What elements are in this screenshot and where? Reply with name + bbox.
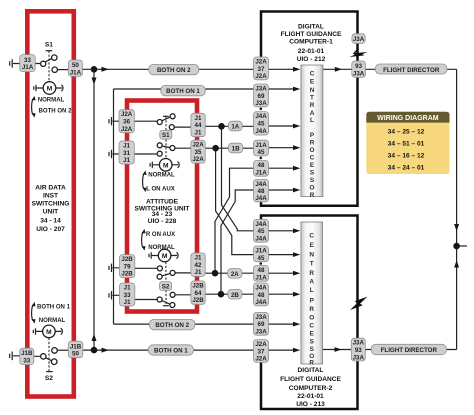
svg-text:35: 35 [195, 149, 202, 156]
connector J2B 64 J2B [191, 281, 205, 304]
node bubble 2A [228, 269, 242, 279]
svg-text:O: O [309, 315, 314, 322]
svg-text:FLIGHT DIRECTOR: FLIGHT DIRECTOR [381, 347, 438, 354]
svg-text:J2A: J2A [255, 356, 267, 363]
connector J3A dfgc1 output top [352, 34, 365, 44]
connector J3A 93 J3A dfgc2 [351, 338, 365, 361]
svg-text:UNIT: UNIT [43, 208, 58, 215]
svg-text:R: R [309, 306, 314, 313]
svg-text:J4A: J4A [255, 128, 267, 135]
switch row 1A attitude: T-bar anchor [163, 115, 169, 117]
svg-text:34 – 16 – 12: 34 – 16 – 12 [388, 152, 425, 159]
svg-text:J3A: J3A [255, 86, 267, 93]
motor M2 air data right mark [55, 328, 62, 334]
svg-text:31: 31 [123, 150, 130, 157]
svg-text:DIGITAL: DIGITAL [298, 367, 324, 374]
motor M2 attitude left mark [149, 252, 158, 258]
wire BOTH ON 1 top row to DFGC-1 J3A [114, 88, 254, 90]
switch row 2B attitude: T-bar anchor [163, 305, 169, 307]
wire right rail flight director [456, 69, 458, 349]
svg-text:NORMAL: NORMAL [38, 98, 65, 104]
svg-text:BOTH ON 1: BOTH ON 1 [166, 88, 200, 95]
svg-text:UIO - 213: UIO - 213 [296, 401, 325, 408]
switch S1 air data: output stub to 50 J1A [58, 69, 69, 71]
switch row 1A attitude: mech dashed [165, 116, 167, 130]
node bubble BOTH ON 2 bottom [149, 319, 195, 329]
svg-text:E: E [310, 79, 315, 86]
switch S2 air data: plug ticks [10, 352, 13, 361]
switch row 1A attitude: output contact [169, 125, 174, 130]
svg-text:FLIGHT GUIDANCE: FLIGHT GUIDANCE [280, 376, 341, 383]
svg-text:J2B: J2B [192, 297, 204, 304]
switch S2 air data: output stub to J1B 50 [58, 349, 69, 351]
junction dot 1B [212, 145, 219, 152]
switch S1 air data: input stub [13, 63, 41, 65]
motor M1 air data right mark [56, 85, 63, 91]
svg-text:J3A: J3A [353, 36, 365, 43]
switch row 2B attitude: mech dashed [165, 290, 167, 306]
switch S2 air data: lower contact [51, 359, 57, 365]
svg-text:P: P [310, 297, 315, 304]
svg-text:33: 33 [24, 57, 31, 64]
switch row 1A attitude: plug and stubs [112, 121, 191, 127]
svg-text:J3A: J3A [255, 329, 267, 336]
motor M2 attitude right mark [171, 252, 178, 258]
svg-text:J2A: J2A [121, 126, 133, 133]
air data switching unit red box [27, 11, 74, 396]
svg-text:S1: S1 [162, 132, 170, 139]
wire top row from S1 output to DFGC-1 J2A (BOTH ON 2 net) [82, 68, 254, 70]
switch row 1B attitude: arm [162, 146, 170, 148]
connector J1A 45 dfgc2 [254, 246, 269, 262]
connector J4A 48 J4A dfgc1 [254, 179, 269, 202]
node bubble BOTH ON 1 bottom [148, 345, 193, 355]
switch S1 air data: upper contact [52, 55, 57, 60]
svg-text:50: 50 [72, 62, 79, 69]
svg-text:1A: 1A [231, 124, 239, 131]
wire vertical bus left (S1/S2 crossfeed) [93, 69, 95, 350]
switch S1 air data: arm [45, 58, 52, 62]
switch row 1A attitude: plug ticks [109, 117, 112, 125]
switch row 2B attitude: output contact [170, 292, 175, 297]
svg-text:SWITCHING: SWITCHING [32, 200, 70, 207]
svg-text:R: R [310, 140, 315, 147]
curved arrow R ON AUX/NORMAL [142, 232, 143, 248]
svg-text:N: N [309, 251, 314, 258]
svg-text:42: 42 [195, 262, 202, 269]
arrow up on right rail [454, 260, 459, 267]
switch row 1A attitude: wiper contact [157, 120, 162, 125]
DFGC-2 box outline [261, 216, 358, 410]
svg-text:UIO - 228: UIO - 228 [148, 218, 177, 225]
wire 2B riser from DFGC-1 J4A 48 [221, 190, 254, 294]
svg-text:J3A: J3A [255, 100, 267, 107]
svg-text:T: T [310, 95, 314, 102]
svg-text:P: P [310, 132, 315, 139]
svg-text:M: M [162, 253, 168, 260]
svg-text:M: M [47, 86, 53, 93]
svg-text:A: A [309, 279, 314, 286]
connector J1 42 J1 [191, 253, 205, 276]
svg-text:33: 33 [23, 358, 30, 365]
switch S1 air data: T-bar anchor [46, 50, 53, 52]
wire CP2 feeders [269, 231, 297, 350]
arrow up on left bus [92, 334, 97, 341]
DFGC-1 box outline [261, 12, 358, 206]
wire 2A row [205, 272, 254, 274]
connector J4A 45 J4A dfgc2 [254, 219, 269, 242]
motor M1 air data left mark [34, 85, 43, 92]
motor M1 attitude right mark [172, 162, 179, 168]
svg-text:WIRING DIAGRAM: WIRING DIAGRAM [377, 115, 439, 122]
wire 1B riser to DFGC-2 J1A 45 [216, 148, 254, 254]
svg-text:J4A: J4A [255, 299, 267, 306]
switch row 2A attitude: output contact [170, 270, 175, 275]
switch S2 air data: T-bar anchor [46, 371, 53, 373]
svg-text:45: 45 [258, 121, 265, 128]
svg-text:L: L [310, 287, 314, 294]
svg-text:COMPUTER-1: COMPUTER-1 [289, 38, 333, 45]
svg-text:J2A: J2A [192, 156, 204, 163]
motor M1 air data [43, 82, 56, 95]
switch row 1B attitude: plug ticks [109, 150, 112, 158]
junction dot 2B [218, 291, 225, 298]
switch position label S1 bubble [160, 130, 172, 139]
svg-text:J2B: J2B [121, 256, 133, 263]
connector J1 33 J1 [120, 283, 135, 306]
switch row 2A attitude: plug ticks [109, 264, 112, 272]
svg-text:R: R [309, 360, 314, 367]
svg-text:64: 64 [195, 290, 202, 297]
connector J3A 69 J3A dfgc1 [254, 84, 269, 107]
switch row 2B attitude: plug and stubs [112, 295, 191, 300]
svg-text:48: 48 [258, 162, 265, 169]
switch row 1B attitude: output contact [170, 146, 175, 151]
svg-text:J1: J1 [195, 130, 202, 137]
svg-text:37: 37 [258, 66, 265, 73]
svg-text:BOTH ON 2: BOTH ON 2 [155, 322, 189, 329]
connector J2A 36 J2A [119, 110, 134, 133]
node dot dfgc2 a [260, 262, 263, 265]
svg-text:48: 48 [258, 292, 265, 299]
svg-text:45: 45 [258, 149, 265, 156]
svg-text:J3A: J3A [353, 354, 365, 361]
svg-text:37: 37 [258, 348, 265, 355]
wire 2A riser from DFGC-1 48 J1A [215, 168, 254, 273]
motor M2 air data [43, 325, 56, 338]
svg-text:O: O [310, 185, 315, 192]
motor M2 air data left mark [33, 328, 42, 335]
arrow CP1 to flight director [335, 67, 342, 72]
connector 33 J1A [20, 55, 35, 72]
motor M2 attitude [158, 249, 171, 262]
switch S1 air data: plug ticks [10, 59, 13, 68]
node bubble FLIGHT DIRECTOR top [375, 64, 447, 74]
svg-text:R: R [310, 192, 315, 199]
legend wiring diagram box [366, 112, 449, 174]
motor M1 attitude [159, 159, 172, 172]
svg-text:S2: S2 [162, 283, 170, 290]
svg-text:69: 69 [258, 321, 265, 328]
switch row 2B attitude: wiper contact [157, 297, 162, 302]
junction dot S1 output [91, 66, 98, 73]
svg-text:NORMAL: NORMAL [39, 318, 66, 324]
svg-text:J3A: J3A [353, 70, 365, 77]
switch row 1B attitude: open contact [157, 143, 162, 148]
svg-text:J1: J1 [195, 115, 202, 122]
connector J1A 45 dfgc1 [254, 140, 269, 156]
wire 1A riser to DFGC-2 J4A 45 [222, 126, 254, 231]
svg-text:S: S [310, 338, 315, 345]
svg-text:22-01-01: 22-01-01 [298, 48, 325, 55]
svg-text:J2A: J2A [192, 142, 204, 149]
svg-text:FLIGHT GUIDANCE: FLIGHT GUIDANCE [281, 31, 342, 38]
lightning break symbol dfgc1 [353, 52, 368, 56]
svg-text:22-01-01: 22-01-01 [297, 393, 324, 400]
svg-text:J4A: J4A [255, 181, 267, 188]
svg-text:S: S [310, 170, 315, 177]
svg-text:N: N [310, 87, 315, 94]
arrows into CP2 [293, 228, 300, 233]
switch row 2A attitude: plug and stubs [112, 268, 191, 273]
svg-text:J1B: J1B [70, 343, 82, 350]
svg-text:J1A: J1A [255, 275, 267, 282]
svg-text:T: T [310, 261, 314, 268]
svg-text:AIR DATA: AIR DATA [35, 184, 66, 191]
junction dot 1A [218, 123, 225, 130]
switch row 1B attitude: mech dashed [165, 139, 167, 158]
svg-text:2A: 2A [231, 271, 239, 278]
svg-text:45: 45 [258, 255, 265, 262]
node bubble BOTH ON 2 top [149, 64, 199, 74]
svg-text:50: 50 [72, 351, 79, 358]
svg-text:UIO - 207: UIO - 207 [36, 226, 65, 233]
svg-text:NORMAL: NORMAL [148, 245, 175, 251]
svg-text:34 – 25 – 12: 34 – 25 – 12 [388, 129, 425, 136]
attitude switching unit red box [127, 101, 197, 312]
svg-text:J4A: J4A [255, 113, 267, 120]
svg-text:NORMAL: NORMAL [148, 172, 175, 178]
svg-text:J1B: J1B [21, 350, 33, 357]
node bubble FLIGHT DIRECTOR bottom [371, 344, 446, 354]
curved arrow NORMAL/BOTH ON 2 [32, 99, 33, 115]
svg-text:44: 44 [195, 122, 202, 129]
svg-text:S: S [310, 177, 315, 184]
switch row 2A attitude: mech dashed [165, 262, 167, 282]
arrow down on left bus [92, 78, 97, 85]
wire BOTH ON 2 bottom row to DFGC-2 J3A [114, 323, 254, 325]
svg-text:79: 79 [124, 263, 131, 270]
svg-text:34 – 51 – 01: 34 – 51 – 01 [388, 141, 425, 148]
svg-text:34 – 24 – 01: 34 – 24 – 01 [388, 164, 425, 171]
svg-text:48: 48 [258, 188, 265, 195]
wire 2B row [204, 293, 254, 295]
svg-text:1B: 1B [232, 146, 240, 153]
switch row 2B attitude: arm [162, 301, 170, 305]
connector J4A 45 J4A dfgc1 [254, 112, 269, 135]
svg-text:93: 93 [355, 347, 362, 354]
svg-text:93: 93 [355, 63, 362, 70]
wire 1A row [204, 125, 254, 127]
svg-text:J1A: J1A [255, 170, 267, 177]
svg-text:UIO - 212: UIO - 212 [297, 56, 326, 63]
svg-text:DIGITAL: DIGITAL [298, 23, 324, 30]
svg-text:69: 69 [258, 93, 265, 100]
svg-text:J4A: J4A [255, 195, 267, 202]
connector J3A 69 J3A dfgc2 [254, 312, 269, 335]
switch S1 air data: wiper contact [41, 61, 46, 66]
connector 50 J1A [68, 60, 82, 76]
svg-text:E: E [310, 331, 315, 338]
svg-text:R: R [310, 102, 315, 109]
switch S1 air data: lower contact to output [52, 67, 57, 72]
CP1 vertical letters [310, 71, 315, 200]
switch row 1B attitude: plug and stubs [112, 148, 191, 154]
connector J1B 50 [68, 341, 83, 357]
svg-text:J1: J1 [124, 299, 131, 306]
svg-text:M: M [163, 162, 169, 169]
curved arrow NORMAL/L ON AUX [143, 174, 144, 190]
junction dot 2A [212, 270, 219, 277]
svg-text:J1: J1 [123, 143, 130, 150]
wire CP1 to flight director output [323, 68, 457, 70]
svg-text:R: R [309, 270, 314, 277]
arrow CP2 to flight director [335, 347, 342, 352]
svg-text:L ON AUX: L ON AUX [146, 186, 175, 192]
svg-text:J1A: J1A [255, 248, 267, 255]
svg-text:S1: S1 [45, 41, 53, 48]
svg-text:34 - 14: 34 - 14 [40, 217, 61, 224]
CP1 central processor box U1 [301, 65, 323, 197]
switch row 1A attitude: arm [162, 117, 171, 121]
svg-text:J1: J1 [195, 255, 202, 262]
svg-text:C: C [310, 71, 315, 78]
connector J2A 35 J2A [191, 140, 205, 163]
svg-text:S: S [310, 346, 315, 353]
switch row 2A attitude: open contact [157, 274, 162, 279]
svg-text:J2A: J2A [255, 59, 267, 66]
switch S2 air data: wiper contact [41, 354, 46, 359]
switch S2 air data: upper contact to output [52, 348, 58, 354]
svg-text:J3A: J3A [353, 340, 365, 347]
lightning break symbol dfgc2 [355, 297, 368, 305]
svg-text:BOTH ON 2: BOTH ON 2 [39, 109, 73, 115]
connector J2B 79 J2B [120, 255, 135, 278]
connector J4A 48 J4A dfgc2 [254, 283, 269, 306]
svg-text:S2: S2 [45, 375, 53, 382]
svg-text:J2A: J2A [255, 73, 267, 80]
motor M1 attitude left mark [150, 162, 159, 169]
arrow down on right rail [454, 224, 459, 231]
svg-text:J4A: J4A [255, 285, 267, 292]
switch row 2A attitude: wiper contact [157, 266, 162, 271]
wire 1B row [204, 147, 254, 149]
svg-text:BOTH ON 1: BOTH ON 1 [37, 305, 71, 311]
svg-text:J2B: J2B [121, 271, 133, 278]
junction dot S2 output [91, 347, 98, 354]
connector 48 J1A dfgc1 [254, 161, 269, 177]
svg-text:2B: 2B [231, 292, 239, 299]
svg-text:L: L [310, 117, 314, 124]
switch row 1B attitude: wiper contact [157, 151, 162, 156]
switch S2 air data: input stub [13, 355, 40, 358]
connector J2A 37 J2A dfgc2 [254, 340, 269, 363]
svg-text:BOTH ON 2: BOTH ON 2 [157, 67, 191, 74]
svg-text:45: 45 [258, 228, 265, 235]
switch S2 air data: arm [46, 358, 53, 361]
arrow right after S2 junction [102, 348, 109, 353]
svg-text:E: E [310, 162, 315, 169]
svg-text:INST: INST [43, 192, 58, 199]
svg-text:33: 33 [124, 292, 131, 299]
arrow right after S1 junction [102, 67, 109, 72]
svg-text:BOTH ON 1: BOTH ON 1 [154, 348, 188, 355]
svg-text:J1: J1 [124, 285, 131, 292]
connector J1 44 J1 [191, 113, 205, 136]
junction dot right rail [453, 243, 460, 250]
node dot dfgc1 a [260, 108, 263, 111]
svg-text:J3A: J3A [255, 314, 267, 321]
svg-text:COMPUTER-2: COMPUTER-2 [289, 385, 333, 392]
svg-text:C: C [309, 323, 314, 330]
switch row 2A attitude: arm [162, 273, 170, 276]
svg-text:C: C [309, 233, 314, 240]
svg-text:J1: J1 [195, 269, 202, 276]
svg-text:J2B: J2B [192, 283, 204, 290]
curved arrow BOTH ON 1/NORMAL bottom [32, 305, 33, 321]
svg-text:E: E [310, 242, 315, 249]
switch row 2B attitude: open contact [170, 303, 175, 308]
svg-text:J2A: J2A [121, 111, 133, 118]
switch position label S2 bubble [160, 282, 172, 291]
wire CP1 feeders [269, 69, 297, 190]
svg-text:FLIGHT DIRECTOR: FLIGHT DIRECTOR [383, 67, 440, 74]
svg-text:A: A [310, 110, 315, 117]
svg-text:J1: J1 [123, 157, 130, 164]
wire stub at right rail junction [460, 245, 468, 247]
connector J2A 37 J2A dfgc1 [254, 57, 269, 80]
node bubble BOTH ON 1 top [161, 85, 206, 95]
svg-text:J2A: J2A [255, 341, 267, 348]
svg-text:R ON AUX: R ON AUX [146, 232, 175, 238]
svg-text:O: O [310, 147, 315, 154]
svg-text:J4A: J4A [255, 221, 267, 228]
svg-text:J1A: J1A [70, 69, 82, 76]
CP2 central processor box U2 [301, 222, 323, 364]
svg-text:C: C [310, 155, 315, 162]
switch row 2B attitude: plug ticks [109, 291, 112, 299]
wire BOTH ON 1 bottom row from S2 output to DFGC-2 J2A [83, 349, 254, 351]
wire CP2 to flight director output [323, 349, 457, 351]
svg-text:J4A: J4A [255, 236, 267, 243]
svg-text:48: 48 [258, 267, 265, 274]
svg-text:J1A: J1A [22, 64, 34, 71]
switch S2 air data: mech dashed link [48, 338, 50, 372]
arrows into CP1 [293, 67, 300, 72]
svg-text:J1A: J1A [255, 142, 267, 149]
node bubble 1B [228, 143, 242, 153]
svg-text:M: M [46, 329, 52, 336]
wire vertical link BOTH ON 1 / BOTH ON 2 [113, 89, 115, 324]
node bubble 1A [228, 121, 242, 131]
svg-text:36: 36 [123, 119, 130, 126]
node dot dfgc1 b [260, 157, 263, 160]
connector J1 31 J1 [119, 141, 134, 164]
connector 93 J3A dfgc1 [352, 61, 366, 77]
connector 48 J1A dfgc2 [254, 266, 269, 282]
switch S1 air data: mech dashed link [48, 51, 50, 82]
node bubble 2B [228, 289, 242, 299]
